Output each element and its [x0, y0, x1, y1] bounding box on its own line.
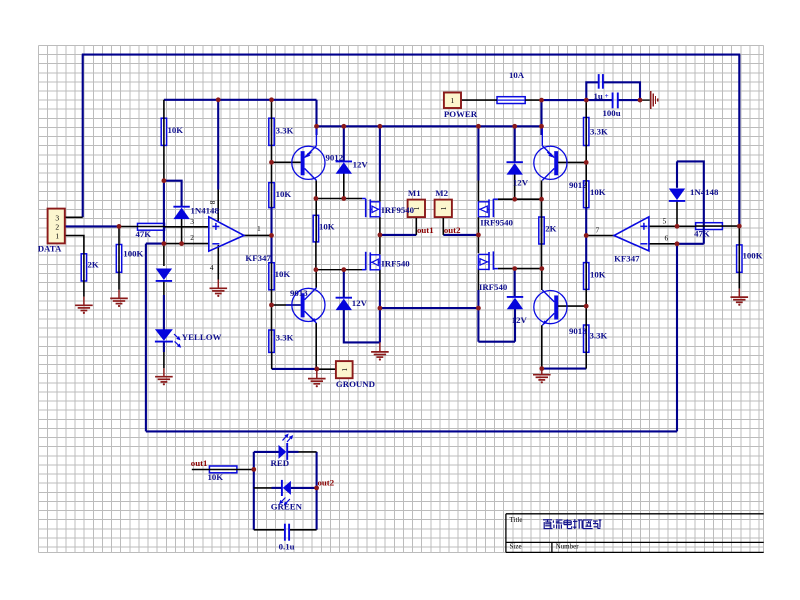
ground (100K right) — [738, 289, 740, 298]
power ground bars (100u) — [651, 91, 658, 109]
resistor 10K (top left) — [161, 118, 166, 145]
svg-text:1: 1 — [451, 96, 455, 105]
svg-text:10A: 10A — [509, 70, 525, 80]
lead 3.3K left top — [271, 100, 273, 146]
resistor 10K (out1 LED, horizontal) — [209, 466, 237, 473]
pin POWER — [461, 99, 497, 101]
lead 10K lower / base Q3 — [271, 263, 273, 353]
lead FET3 source pin — [379, 270, 381, 291]
svg-text:3.3K: 3.3K — [590, 126, 608, 136]
lead 100K top — [118, 226, 120, 272]
svg-text:5: 5 — [663, 216, 667, 225]
diode D3 1N4148 (right) — [669, 189, 685, 201]
lead FET2 drain pin — [477, 181, 479, 202]
svg-text:KF347: KF347 — [245, 253, 271, 263]
wire feedback left column — [145, 244, 147, 432]
wire FET4 gate bus — [498, 268, 542, 270]
resistor 10K (Q1 collector) — [313, 215, 318, 242]
mosfet FET2 IRF9540 (upper right, mirrored) — [493, 198, 498, 200]
resistor 100K (right) — [737, 245, 742, 272]
lead FET4 source pin — [477, 268, 479, 290]
lead diode D3 cathode — [676, 201, 678, 226]
svg-text:3.3K: 3.3K — [276, 126, 294, 136]
svg-text:4: 4 — [210, 263, 214, 272]
wire right outer vertical — [738, 55, 740, 226]
LED YELLOW — [155, 329, 173, 341]
svg-text:out2: out2 — [318, 477, 335, 487]
diode D1 1N4148 (left) — [173, 206, 189, 208]
svg-text:10K: 10K — [276, 189, 292, 199]
svg-text:3: 3 — [55, 213, 59, 222]
LED RED (horizontal) — [286, 443, 288, 460]
wire opamp1 +input — [165, 226, 209, 228]
svg-text:GROUND: GROUND — [336, 379, 375, 389]
capacitor C1 1u — [598, 74, 600, 89]
resistor 2K (right) — [539, 217, 544, 244]
zener Z2 12V — [507, 161, 523, 163]
zener Z1 12V — [336, 160, 352, 162]
wire left outer vertical (DATA pin3 to top rail) — [82, 55, 84, 218]
wire FET1 drain — [379, 126, 381, 180]
pin DATA 3 — [65, 216, 83, 218]
wire 1u bypass loop right — [603, 82, 640, 100]
svg-text:Title: Title — [510, 516, 523, 524]
connector DATA — [48, 209, 65, 244]
wire Q1 emitter to rail — [315, 126, 317, 135]
svg-text:IRF9540: IRF9540 — [480, 217, 513, 227]
svg-text:out1: out1 — [417, 225, 434, 235]
lead Q3 collector — [315, 270, 317, 288]
junction dots — [117, 224, 122, 229]
zener Z4 12V — [507, 296, 523, 298]
svg-text:10K: 10K — [590, 187, 606, 197]
pin GROUND connector — [317, 368, 336, 370]
svg-text:IRF9540: IRF9540 — [381, 205, 414, 215]
fuse 10A — [497, 97, 525, 104]
wire FET2 drain — [477, 126, 479, 180]
lead 2K bottom — [83, 254, 85, 297]
svg-text:10K: 10K — [208, 472, 224, 482]
svg-text:9013: 9013 — [290, 288, 308, 298]
pin opamp1 output — [244, 234, 272, 236]
svg-text:POWER: POWER — [444, 109, 478, 119]
lead 100K right bottom — [738, 245, 740, 289]
lead Q2 collector — [541, 180, 543, 244]
wire feedback bottom rail — [146, 430, 677, 432]
pin opamp2 output (7) — [586, 235, 614, 237]
svg-text:DATA: DATA — [38, 244, 62, 254]
wire diode D3 anode — [676, 161, 678, 187]
lead 10K right lower / base — [585, 263, 587, 307]
svg-text:1N4148: 1N4148 — [191, 206, 220, 216]
lead FET2 source pin — [477, 217, 479, 235]
lead 3.3K bottom-left to ground node — [271, 352, 273, 369]
lead 10K out1 right — [209, 469, 253, 471]
lead Q1 collector — [315, 180, 317, 242]
resistor 47K (left, horizontal) — [138, 223, 165, 230]
lead diode D2 chain — [163, 244, 165, 266]
svg-text:3: 3 — [190, 217, 194, 226]
svg-text:6: 6 — [665, 234, 669, 243]
lead zener Z2 bottom — [514, 174, 516, 199]
svg-text:1u: 1u — [594, 91, 603, 101]
svg-text:9012: 9012 — [326, 152, 344, 162]
mosfet FET1 IRF9540 (upper left) — [362, 198, 366, 200]
svg-text:2: 2 — [190, 233, 194, 242]
lead YELLOW led to ground — [163, 342, 165, 352]
wire cap 0.1u row — [254, 529, 285, 531]
wire node A to node B vertical — [163, 181, 165, 244]
svg-text:IRF540: IRF540 — [381, 258, 410, 268]
wire diode D3 L shape — [677, 161, 704, 243]
wire FET3 source to ground — [379, 290, 381, 342]
wire GREEN LED row — [254, 487, 272, 489]
pin M2 — [442, 217, 444, 235]
op-amp U1B KF347 (right, mirrored) — [614, 217, 649, 251]
resistor 10K (left chain upper) — [269, 183, 274, 208]
wire out2 net — [443, 234, 478, 236]
svg-text:12V: 12V — [353, 159, 369, 169]
svg-text:KF347: KF347 — [614, 253, 640, 263]
pin opamp2 -input (6) — [649, 243, 677, 245]
svg-text:9013: 9013 — [569, 326, 587, 336]
lead 3.3K left bottom / base Q1 — [271, 145, 273, 207]
transistor Q2 9012 (PNP right, mirrored) — [534, 146, 567, 179]
wire POWER column — [540, 100, 542, 126]
lead 47K right to outer — [696, 225, 740, 227]
lead 2K right bottom — [541, 244, 543, 269]
wire zener Z3 bottom to ground corner — [344, 310, 380, 343]
wire VCC rail corner drop — [315, 100, 317, 127]
svg-text:12V: 12V — [513, 178, 529, 188]
connector POWER — [444, 93, 461, 109]
svg-text:GREEN: GREEN — [271, 501, 303, 511]
wire DATA pin2 to junction — [65, 225, 119, 227]
ground (100K left) — [118, 290, 120, 299]
ground (2K left) — [83, 297, 85, 306]
wire node A to diode D1 cathode (L shape) — [164, 181, 182, 207]
resistor 3.3K (right chain) — [584, 118, 589, 146]
capacitor C3 0.1u — [284, 524, 286, 541]
svg-text:Size: Size — [510, 542, 522, 550]
wire feedback right column to opamp2 pin6 — [676, 244, 678, 432]
wire ground node right — [542, 368, 587, 370]
lead base Q2 — [585, 146, 587, 208]
resistor 3.3K (left chain) — [269, 118, 274, 145]
lead Q4 collector — [541, 269, 543, 290]
lead FET1 source pin — [379, 217, 381, 235]
pin opamp2 +input (5) — [649, 225, 696, 227]
svg-text:RED: RED — [271, 458, 290, 468]
wire Q2 emitter to rail — [540, 126, 542, 135]
wire zener Z4 column top — [514, 269, 516, 297]
LED GREEN (horizontal) — [281, 480, 283, 496]
svg-text:3.3K: 3.3K — [276, 332, 294, 342]
resistor 100K (left) — [116, 245, 121, 273]
pin DATA 1 — [65, 236, 84, 254]
zener Z3 12V — [336, 297, 352, 299]
svg-text:12V: 12V — [512, 315, 528, 325]
wire VCC rail mid horizontal — [317, 125, 542, 127]
lead FET3 drain pin — [379, 235, 381, 255]
wire VCC rail upper-left horizontal — [164, 99, 317, 101]
pin DATA 2 lead to 47K — [119, 226, 165, 228]
transistor Q3 9013 (NPN left) — [292, 288, 325, 321]
lead 100K bottom — [118, 272, 120, 290]
wire top outer horizontal — [82, 54, 740, 56]
wire zener Z2 top — [514, 126, 516, 162]
lead Q4 emitter — [541, 325, 543, 368]
lead diode D1 anode to node B — [181, 219, 183, 244]
resistor 10K (right chain upper) — [584, 181, 589, 208]
wire FET4 source to zener Z4 — [478, 341, 515, 343]
svg-text:1: 1 — [439, 206, 448, 210]
lead FET4 drain pin — [477, 235, 479, 253]
svg-text:10K: 10K — [590, 269, 606, 279]
pin opamp1 V- (4) — [217, 245, 219, 280]
ground (FET sources) — [379, 342, 381, 352]
ground (GROUND node) — [316, 369, 318, 379]
svg-text:1: 1 — [340, 368, 349, 372]
svg-text:out1: out1 — [191, 458, 208, 468]
wire LED right column — [316, 452, 318, 530]
svg-text:10K: 10K — [319, 222, 335, 232]
wire node B left extension — [146, 243, 164, 245]
svg-text:7: 7 — [596, 226, 600, 235]
wire zener Z3 column top — [343, 270, 345, 298]
resistor 2K (left) — [81, 254, 86, 281]
svg-text:10K: 10K — [168, 125, 184, 135]
wire zener Z1 top — [343, 126, 345, 161]
wire right chain output node — [585, 208, 587, 263]
lead base Q4 — [558, 305, 586, 307]
svg-text:1: 1 — [55, 232, 59, 241]
wire ground node left — [272, 368, 317, 370]
wire opamp1 -input — [164, 243, 209, 245]
svg-text:1: 1 — [257, 224, 261, 233]
lead 10K bottom to node A — [163, 145, 165, 180]
svg-text:2K: 2K — [88, 260, 99, 270]
ground (opamp1 pin4) — [217, 280, 219, 289]
wire FET4 source column — [477, 290, 479, 342]
svg-text:2K: 2K — [545, 223, 556, 233]
lead fuse right — [525, 99, 541, 101]
connector M2 — [435, 200, 452, 218]
wire out1 net — [380, 234, 416, 236]
ground (right emitter node) — [541, 369, 543, 375]
mosfet FET3 IRF540 (lower left) — [362, 269, 366, 271]
resistor 3.3K (left chain bottom) — [269, 330, 274, 352]
lead FET1 drain pin — [379, 181, 381, 202]
svg-text:9012: 9012 — [569, 180, 587, 190]
wire 100u to ground bars — [618, 99, 640, 101]
capacitor C2 100u polarized — [612, 93, 614, 109]
svg-text:0.1u: 0.1u — [279, 541, 295, 551]
ground (YELLOW led) — [163, 368, 165, 376]
lead 3.3K right top — [585, 100, 587, 145]
resistor 10K (left chain lower) — [269, 263, 274, 290]
svg-text:100K: 100K — [743, 250, 763, 260]
lead 3.3K right-bottom — [585, 306, 587, 352]
svg-text:1N4148: 1N4148 — [690, 187, 719, 197]
lead 10K Q1col bottom — [315, 242, 317, 270]
wire POWER node to 100u — [542, 99, 613, 101]
svg-text:out2: out2 — [444, 225, 461, 235]
wire FET2 gate bus — [498, 198, 542, 200]
svg-text:Number: Number — [556, 542, 580, 550]
svg-text:47K: 47K — [694, 229, 710, 239]
svg-text:10K: 10K — [275, 269, 291, 279]
svg-text:M1: M1 — [408, 188, 421, 198]
svg-text:47K: 47K — [136, 229, 152, 239]
connector GROUND — [336, 361, 353, 378]
svg-text:8: 8 — [208, 201, 217, 205]
transistor Q4 9013 (NPN right, mirrored) — [534, 291, 567, 324]
wire out1 label lead — [192, 469, 210, 471]
wire zener Z4 bottom — [514, 309, 516, 342]
lead 10K top-left column — [163, 100, 165, 146]
wire 1u bypass loop left — [586, 82, 598, 100]
svg-text:12V: 12V — [352, 298, 368, 308]
wire RED LED row — [254, 451, 279, 453]
svg-text:+: + — [605, 92, 609, 100]
resistor 3.3K (right chain bottom) — [584, 325, 589, 352]
pin M1 — [415, 217, 417, 235]
transistor Q1 9012 (PNP left) — [292, 146, 325, 179]
wire gate bus left lower — [316, 269, 362, 271]
diode D2 (YELLOW chain) — [156, 269, 172, 281]
lead Q3 emitter — [315, 323, 317, 369]
wire opamp1 pin8 supply column — [217, 100, 219, 190]
resistor 47K (right, horizontal) — [696, 223, 723, 230]
svg-text:3.3K: 3.3K — [590, 331, 608, 341]
title text (Chinese): DC motor drive — [543, 519, 552, 521]
svg-text:100u: 100u — [603, 108, 621, 118]
wire LED left column — [253, 452, 255, 530]
wire FET gate bus upper left — [316, 198, 362, 200]
wire left chain output node — [270, 208, 272, 263]
wire opamp2 pin6 to L — [677, 243, 704, 245]
lead zener Z1 bottom — [343, 173, 345, 198]
mosfet FET4 IRF540 (lower right, mirrored) — [493, 268, 498, 270]
svg-text:IRF540: IRF540 — [479, 282, 508, 292]
op-amp U1A KF347 (left) — [209, 217, 244, 251]
connector M1 — [408, 200, 425, 218]
svg-text:M2: M2 — [435, 188, 448, 198]
svg-text:YELLOW: YELLOW — [182, 332, 222, 342]
wire source cross-connect — [380, 307, 479, 309]
resistor 10K (right chain lower) — [584, 263, 589, 290]
svg-text:100K: 100K — [123, 248, 143, 258]
pin opamp1 V+ (8) — [217, 190, 219, 221]
svg-text:2: 2 — [55, 223, 59, 232]
title block frame — [506, 513, 764, 515]
